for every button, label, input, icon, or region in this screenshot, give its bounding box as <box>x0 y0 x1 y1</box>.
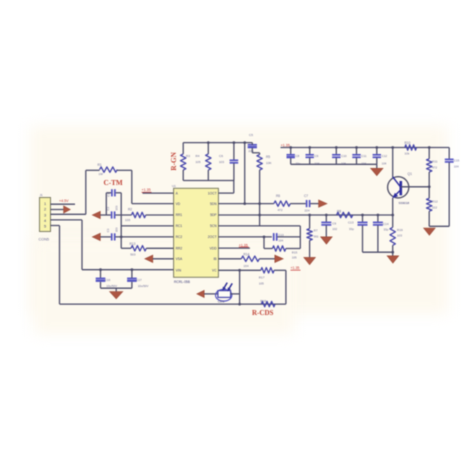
svg-text:C15: C15 <box>454 159 460 163</box>
port arrow VSA <box>145 255 153 262</box>
capacitor C14 <box>373 222 383 225</box>
svg-text:+1.35: +1.35 <box>281 143 290 147</box>
value C17 <box>138 284 149 288</box>
wire C9 stub <box>309 148 311 155</box>
capacitor C8 <box>287 155 295 159</box>
label C17 <box>136 278 142 282</box>
wire C9b bot <box>325 226 327 237</box>
junction C13b <box>361 214 364 217</box>
junction R5 R6 <box>258 202 261 205</box>
svg-text:561: 561 <box>314 234 319 238</box>
value C13 <box>278 238 283 242</box>
capacitor C9b <box>321 222 331 225</box>
junction VC riser <box>238 269 241 272</box>
wire R1 right <box>117 169 132 171</box>
wire gnd bus C16C17 <box>101 287 132 289</box>
junction R5 bottom <box>258 214 261 217</box>
wire loop right vert <box>299 226 301 249</box>
wire C14 stub <box>377 215 379 222</box>
svg-text:4: 4 <box>44 219 46 223</box>
svg-text:R1: R1 <box>98 163 102 167</box>
capacitor C6 <box>230 160 239 163</box>
svg-text:104: 104 <box>278 238 283 242</box>
junction C14 <box>377 214 380 217</box>
wire collector riser <box>392 148 394 178</box>
label J1 <box>40 193 44 197</box>
svg-text:C7: C7 <box>304 194 308 198</box>
svg-text:C3: C3 <box>106 228 110 232</box>
wire bracket right vert <box>120 193 122 237</box>
label R3 <box>186 154 190 158</box>
svg-text:C10: C10 <box>341 154 347 158</box>
resistor R4 <box>206 154 211 170</box>
wire R7 top stub <box>309 215 311 229</box>
photo background tint lower-left <box>34 240 294 334</box>
label R6 <box>276 194 280 198</box>
wire C10 bot <box>335 158 337 164</box>
svg-text:C17: C17 <box>136 278 142 282</box>
ground R7 <box>304 257 316 264</box>
wire C1 bracket right <box>116 192 122 194</box>
wire R13 left <box>121 247 131 249</box>
svg-text:SS9018: SS9018 <box>399 201 410 205</box>
label C7 <box>304 194 308 198</box>
label R18 <box>260 299 266 303</box>
transistor Q1 collector lead <box>393 177 401 188</box>
wire CDS right <box>231 293 240 295</box>
label C6 <box>219 154 223 158</box>
svg-text:VIN: VIN <box>176 268 182 272</box>
svg-text:R19: R19 <box>397 228 403 232</box>
junction bus2 <box>391 251 394 254</box>
wire C9b stub <box>325 215 327 222</box>
transistor Q1 circle <box>388 177 409 198</box>
wire loop bottom left <box>264 248 273 250</box>
svg-text:102: 102 <box>332 227 337 231</box>
svg-text:CDS: CDS <box>218 299 225 303</box>
wire 5DP row <box>218 214 392 216</box>
svg-text:Q1: Q1 <box>408 172 413 176</box>
svg-text:C8: C8 <box>296 154 300 158</box>
junction C9 <box>308 146 311 149</box>
wire C3 to IC <box>116 236 174 238</box>
capacitor C2 <box>112 211 115 218</box>
wire C15 top stub <box>448 148 450 159</box>
wire RGN top rail <box>183 142 252 144</box>
value R2 <box>125 218 130 222</box>
wire C8 bot <box>290 158 292 164</box>
wire Q1 base <box>401 186 430 188</box>
svg-text:103: 103 <box>125 218 130 222</box>
wire C6 bot stub <box>233 163 235 180</box>
svg-text:5DP: 5DP <box>210 213 217 217</box>
wire rail to R6 riser <box>244 143 246 204</box>
wire R5 top stub <box>259 153 261 155</box>
label R17 <box>259 275 265 279</box>
label C11 <box>361 154 367 158</box>
svg-text:5CN: 5CN <box>210 224 217 228</box>
wire C1 bracket left <box>106 192 111 194</box>
net label +1.35 (VC) <box>291 266 301 270</box>
svg-text:2OCT: 2OCT <box>208 235 217 239</box>
label C1 <box>107 193 111 197</box>
label C2 <box>106 206 110 210</box>
svg-text:222: 222 <box>432 205 437 209</box>
wire C16 bottom <box>100 282 102 288</box>
resistor R8 <box>337 212 353 217</box>
wire RGN left top stub <box>182 143 184 154</box>
label C13 <box>278 233 284 237</box>
wire R19 gnd stem <box>392 252 394 256</box>
value C10 <box>341 161 346 165</box>
label Q1 <box>408 172 413 176</box>
junction C16 <box>99 268 102 271</box>
junction C9b <box>325 214 328 217</box>
label U1 <box>172 184 176 188</box>
label R13 <box>130 242 136 246</box>
svg-text:C5: C5 <box>249 133 253 137</box>
junction R7 <box>308 214 311 217</box>
resistor R5 <box>257 155 262 171</box>
resistor R7 <box>307 229 312 241</box>
ground C9b <box>321 237 333 244</box>
wire C17 stub <box>131 270 133 278</box>
capacitor C17 <box>127 278 137 282</box>
svg-text:R14: R14 <box>244 252 250 256</box>
value C7 <box>305 208 310 212</box>
junction loop left <box>263 236 266 239</box>
wire C17 bottom <box>131 282 133 288</box>
wire arrow1 tail <box>100 214 111 216</box>
ground R19 <box>387 256 399 263</box>
wire bus2 <box>363 251 393 253</box>
label R14 <box>244 252 250 256</box>
wire 1OCT <box>218 192 233 194</box>
wire C13 right <box>278 236 301 238</box>
svg-text:C12: C12 <box>382 154 388 158</box>
value C8 <box>296 161 301 165</box>
junction C6 top <box>233 141 236 144</box>
junction C11 <box>355 146 358 149</box>
value R19 <box>397 234 402 238</box>
wire R12 bot stub <box>428 211 430 226</box>
svg-text:105: 105 <box>259 281 264 285</box>
svg-text:R3: R3 <box>186 154 190 158</box>
capacitor C15 <box>445 159 454 162</box>
wire R6 to C7 <box>290 203 306 205</box>
junction C8 <box>289 146 292 149</box>
wire gnd stem C16C17 <box>115 288 117 291</box>
wire R17 right <box>274 269 286 271</box>
label R19 <box>397 228 403 232</box>
label R8 <box>337 210 341 214</box>
capacitor C13 <box>274 233 277 241</box>
wire VDD <box>218 247 250 249</box>
ic U1 body <box>174 188 219 277</box>
title C-TM <box>104 179 123 187</box>
wire 5CN row <box>218 225 300 227</box>
wire 1OCT riser <box>233 181 235 194</box>
value C9b <box>332 227 337 231</box>
wire R11 top stub <box>428 148 430 159</box>
label CDS <box>218 299 225 303</box>
capacitor C16 <box>96 278 106 282</box>
junction R4 top <box>207 141 210 144</box>
wire C13b stub <box>362 215 364 222</box>
label C5 <box>249 133 253 137</box>
wire CDS left <box>204 293 218 295</box>
svg-text:C6: C6 <box>219 154 223 158</box>
junction C17 <box>131 268 134 271</box>
resistor R1 <box>100 167 118 172</box>
wire CON1 pin3 <box>51 213 86 215</box>
value C5 <box>248 149 253 153</box>
ground C16C17 <box>110 292 123 299</box>
value R12 <box>432 205 437 209</box>
wire C13b bot <box>362 226 364 253</box>
wire C16 stub <box>100 270 102 278</box>
junction R11 rail <box>428 146 431 149</box>
svg-text:R6: R6 <box>276 194 280 198</box>
junction bottom riser <box>238 303 241 306</box>
junction collector rail <box>391 146 394 149</box>
wire pin4 riser <box>81 220 83 270</box>
svg-text:C14: C14 <box>383 222 389 226</box>
port arrow IB <box>275 255 283 262</box>
wire R5 down <box>259 170 261 226</box>
wire C7 to port <box>310 203 318 205</box>
power port arrow +4.5V <box>64 206 71 213</box>
svg-text:VC: VC <box>212 268 217 272</box>
value C12 <box>382 161 387 165</box>
label C9b <box>332 222 336 226</box>
resistor R18 <box>261 301 275 306</box>
svg-text:10u/50V: 10u/50V <box>138 284 149 288</box>
svg-text:1: 1 <box>44 202 46 206</box>
svg-text:105: 105 <box>196 160 201 164</box>
label R12 <box>432 200 438 204</box>
label R2 <box>128 208 132 212</box>
title R-GN <box>170 151 178 170</box>
svg-text:R18: R18 <box>260 299 266 303</box>
wire R13 to IC <box>146 247 173 249</box>
ground right col <box>424 228 436 235</box>
label C3 <box>106 228 110 232</box>
wire C10 stub <box>335 148 337 155</box>
svg-text:RR2: RR2 <box>176 246 183 250</box>
svg-text:3: 3 <box>44 213 46 217</box>
label Q1 part <box>399 201 410 205</box>
svg-text:C9: C9 <box>332 222 336 226</box>
svg-text:1M: 1M <box>99 172 104 176</box>
value C11 <box>361 161 366 165</box>
svg-text:104: 104 <box>382 161 387 165</box>
value C15 <box>454 164 459 168</box>
junction rail riser <box>243 141 246 144</box>
value R4 <box>196 160 201 164</box>
wire top rail <box>281 147 450 149</box>
net label +1.35 (pin A) <box>142 188 152 192</box>
wire C12 stub <box>376 148 378 155</box>
value R10 <box>405 151 410 155</box>
value C16 <box>106 284 117 288</box>
wire C11 stub <box>356 148 358 155</box>
net label +1.35 (rail) <box>281 143 291 147</box>
svg-text:CON5: CON5 <box>39 238 50 242</box>
label C9 <box>315 154 319 158</box>
svg-text:C13: C13 <box>348 221 354 225</box>
svg-text:103: 103 <box>115 227 119 232</box>
label R10 <box>405 141 411 145</box>
svg-text:C-TM: C-TM <box>104 179 123 187</box>
resistor R10 <box>405 145 417 150</box>
wire VD <box>132 203 174 205</box>
label R4 <box>196 154 200 158</box>
capacitor C9 <box>306 155 314 158</box>
resistor R17 <box>261 268 274 273</box>
svg-text:RR1: RR1 <box>176 213 183 217</box>
svg-text:C1: C1 <box>107 193 111 197</box>
value R14 <box>244 264 249 268</box>
wire VIN rail <box>82 269 174 271</box>
port arrow OUT <box>319 200 327 207</box>
wire bottom rail <box>60 303 286 305</box>
svg-text:R8: R8 <box>337 210 341 214</box>
wire C11 bot <box>356 158 358 164</box>
wire loop bottom right <box>286 248 301 250</box>
wire C15 bot stub <box>448 163 450 227</box>
wire C8 stub <box>290 148 292 155</box>
svg-text:+1.35: +1.35 <box>291 266 300 270</box>
label C14 <box>383 222 389 226</box>
wire R1 left <box>86 169 100 171</box>
wire R4 bot stub <box>207 170 209 181</box>
value C2 <box>115 205 119 210</box>
resistor R2 <box>132 212 146 217</box>
wire pin A <box>143 192 174 194</box>
wire R1 corner <box>131 170 133 203</box>
wire emitter riser <box>392 198 394 215</box>
connector CON1 <box>40 198 51 232</box>
net label +1.35 (VDD) <box>239 244 249 248</box>
svg-text:2: 2 <box>44 208 46 212</box>
resistor R6 <box>274 201 290 206</box>
svg-text:R17: R17 <box>259 275 265 279</box>
resistor R13 <box>131 246 146 251</box>
resistor R15 <box>273 246 286 251</box>
wire VC right vert <box>285 270 287 304</box>
svg-text:R5: R5 <box>266 155 270 159</box>
capacitor C1 <box>112 189 115 196</box>
value R6 <box>278 208 283 212</box>
svg-text:103: 103 <box>219 160 224 164</box>
svg-text:U1: U1 <box>172 184 176 188</box>
wire col to R13 row <box>120 237 122 248</box>
value C9 <box>315 161 320 165</box>
transistor Q1 emitter lead <box>392 190 401 198</box>
svg-text:R-GN: R-GN <box>170 151 178 170</box>
value C3 <box>115 227 119 232</box>
junction C12 <box>375 146 378 149</box>
wire VC left <box>218 269 260 271</box>
resistor R14 <box>241 256 259 261</box>
value C14 <box>384 227 389 231</box>
photoresistor CDS <box>216 283 233 302</box>
label CON5 <box>39 238 50 242</box>
svg-text:103: 103 <box>397 234 402 238</box>
port arrow RC2 <box>92 233 100 240</box>
svg-text:33p: 33p <box>349 227 354 231</box>
port arrow CDS <box>197 290 204 297</box>
svg-text:5DN: 5DN <box>210 202 217 206</box>
label C16 <box>105 278 111 282</box>
wire VC left riser <box>239 270 241 304</box>
svg-text:104: 104 <box>454 164 459 168</box>
resistor R11 <box>427 159 432 172</box>
wire C9 bot <box>309 158 311 164</box>
power label +4.5V <box>59 199 69 203</box>
svg-text:R13: R13 <box>130 242 136 246</box>
svg-text:+1.35: +1.35 <box>142 188 151 192</box>
wire R2 to IC <box>146 214 174 216</box>
wire right col bottom <box>429 225 449 227</box>
value R7 <box>314 234 319 238</box>
capacitor C5 <box>248 143 257 149</box>
wire C5 down <box>251 148 253 153</box>
svg-text:R4: R4 <box>196 154 200 158</box>
wire IB left <box>218 258 241 260</box>
wire R14 to port <box>259 258 275 260</box>
wire R4 top stub <box>207 143 209 154</box>
wire cap bank bus <box>291 163 377 165</box>
label C15 <box>454 159 460 163</box>
label C10 <box>341 154 347 158</box>
label R7 <box>314 229 318 233</box>
svg-text:R-CDS: R-CDS <box>252 309 273 317</box>
resistor R3 <box>181 154 186 170</box>
svg-text:103: 103 <box>115 205 119 210</box>
wire R11 bot stub <box>428 172 430 198</box>
svg-text:1OCT: 1OCT <box>208 191 217 195</box>
wire R7 bot stub <box>309 240 311 257</box>
wire C5 corner <box>252 152 259 154</box>
wire C6 top stub <box>233 143 235 160</box>
capacitor C3 <box>112 233 115 240</box>
wire C12 bot <box>376 158 378 164</box>
capacitor C11 <box>352 155 360 158</box>
svg-text:R2: R2 <box>128 208 132 212</box>
capacitor C13b <box>358 222 368 225</box>
svg-text:C16: C16 <box>105 278 111 282</box>
wire CON1 pin4 <box>51 219 83 221</box>
svg-text:5: 5 <box>44 225 46 229</box>
ground cap bank <box>371 168 383 175</box>
wire RC1 <box>121 225 173 227</box>
value R1 <box>99 172 104 176</box>
wire CON1 pin5 <box>51 225 60 227</box>
label R15 <box>292 250 298 254</box>
wire bus gnd stem <box>376 164 378 168</box>
svg-text:472: 472 <box>278 208 283 212</box>
svg-text:R15: R15 <box>292 250 298 254</box>
svg-text:C2: C2 <box>106 206 110 210</box>
svg-text:224: 224 <box>305 208 310 212</box>
wire loop left vert <box>263 237 265 249</box>
port arrow RR1 <box>92 211 100 218</box>
wire pin3 riser <box>85 170 87 214</box>
svg-text:RC1: RC1 <box>176 224 183 228</box>
svg-text:R10: R10 <box>405 141 411 145</box>
